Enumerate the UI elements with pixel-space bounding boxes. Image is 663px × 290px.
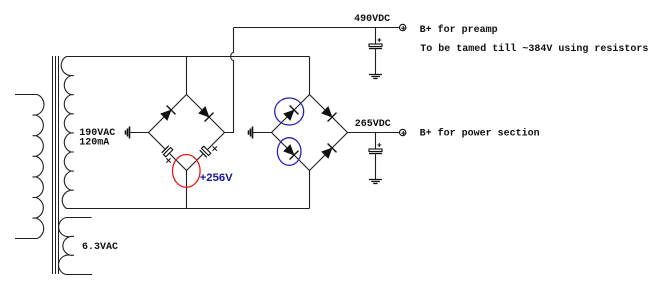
ground C4 265V filter — [369, 180, 382, 184]
wire 490VDC rail — [234, 27, 400, 29]
svg-text:265VDC: 265VDC — [355, 119, 391, 130]
diode D2 — [199, 107, 214, 122]
connector AC input to bridge1 — [126, 127, 130, 139]
wire cap to ground C4 265V filter — [375, 154, 377, 179]
wire C1 leads — [149, 133, 187, 171]
annotation blue circle upper diode — [275, 98, 304, 125]
wire 490V feed with hop over AC rail — [225, 28, 234, 133]
svg-text:+256V: +256V — [200, 172, 233, 184]
svg-text:6.3VAC: 6.3VAC — [82, 242, 118, 253]
svg-text:B+ for power section: B+ for power section — [420, 127, 540, 139]
transformer secondary 6.3VAC winding — [59, 218, 92, 275]
capacitor C4 265V filter — [369, 143, 382, 153]
wire 265VDC rail — [348, 132, 400, 134]
connector AC input to bridge2 — [249, 127, 253, 139]
transformer core — [53, 56, 59, 274]
wire bridge2 top vertical — [309, 57, 311, 95]
terminal 490VDC output — [400, 24, 406, 30]
wire cap stub C3 490V filter — [375, 28, 377, 45]
annotation red ellipse around +256V node — [173, 155, 201, 188]
wire C2 leads — [187, 133, 225, 171]
wire bridge2 AC input lead — [253, 132, 272, 134]
wire bridge1 bottom vertical — [186, 171, 188, 209]
svg-text:To be tamed till ~384V using r: To be tamed till ~384V using resistors — [420, 43, 648, 55]
diode D4 — [322, 107, 337, 122]
transformer secondary 190VAC winding — [61, 57, 74, 209]
diode D5 — [284, 145, 299, 160]
wire bridge2 bottom vertical — [309, 171, 311, 209]
ground C3 490V filter — [369, 75, 382, 79]
capacitor C1 — [162, 146, 173, 163]
diode D3 — [284, 106, 299, 121]
wire top AC rail — [66, 56, 309, 58]
wire bridge1 AC input lead — [130, 132, 149, 134]
wire cap to ground C3 490V filter — [375, 49, 377, 74]
svg-text:120mA: 120mA — [79, 137, 109, 148]
wire cap stub C4 265V filter — [375, 133, 377, 150]
wire bottom bus — [66, 208, 309, 210]
wire bridge1 upper-right edge — [187, 95, 225, 133]
diode D1 — [161, 106, 176, 121]
wire bridge1 upper-left edge — [149, 95, 187, 133]
svg-text:B+ for preamp: B+ for preamp — [420, 24, 498, 36]
wire bridge1 top vertical — [186, 57, 188, 95]
capacitor C2 — [200, 146, 217, 157]
terminal 265VDC output — [400, 129, 406, 135]
svg-text:490VDC: 490VDC — [354, 14, 390, 25]
diode D6 — [322, 144, 337, 159]
annotation blue circle lower diode — [277, 138, 301, 166]
capacitor C3 490V filter — [369, 38, 382, 48]
wire bridge2 edges — [272, 95, 348, 171]
transformer T1 primary winding — [15, 95, 44, 239]
